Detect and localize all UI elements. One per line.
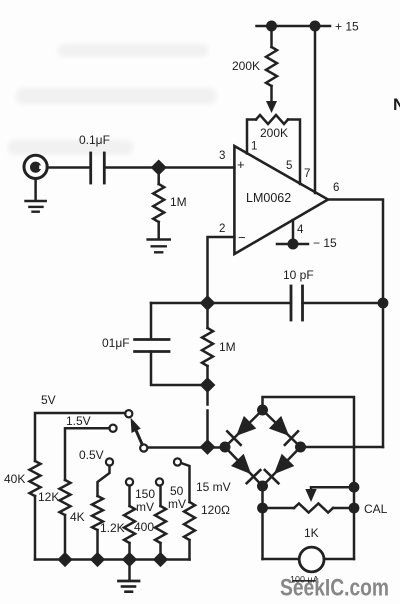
wiper arrow of 200K pot — [266, 101, 277, 113]
CAL wiper arrowhead — [305, 489, 316, 502]
svg-text:1K: 1K — [304, 526, 319, 540]
capacitor C2 10pF plates — [290, 286, 293, 320]
wire pot right lead — [333, 507, 354, 510]
node -15 junction — [288, 239, 299, 250]
svg-text:150: 150 — [135, 487, 155, 501]
input jack center contact — [30, 162, 41, 173]
node rail junction R4 — [122, 552, 137, 567]
wire 5V line — [35, 413, 125, 461]
node bridge right — [295, 442, 306, 453]
diode D3 bottom-left — [231, 454, 251, 475]
svg-text:12K: 12K — [38, 490, 59, 504]
ground rail stem — [128, 560, 131, 581]
svg-text:LM0062: LM0062 — [246, 191, 291, 205]
wire feedback row left segment — [151, 302, 291, 305]
svg-text:2: 2 — [219, 223, 225, 235]
node rail junction R2 — [57, 552, 72, 567]
svg-text:7: 7 — [304, 168, 310, 180]
resistor R2 12K — [60, 480, 71, 515]
switch contact 0.5V — [106, 458, 113, 465]
wire 150mV stub — [128, 486, 131, 506]
resistor 1M feedback — [206, 303, 209, 328]
switch contact 15mV — [174, 458, 181, 465]
svg-text:1M: 1M — [170, 195, 187, 209]
node input junction — [151, 159, 167, 175]
svg-text:− 15: − 15 — [313, 236, 337, 250]
wire 0.5V line — [98, 466, 110, 496]
switch arm arrowhead — [131, 418, 141, 433]
svg-text:6: 6 — [333, 182, 339, 194]
node bridge top — [257, 405, 268, 416]
ground jack stem — [34, 179, 37, 201]
input jack J1 outer ring — [24, 155, 47, 178]
node +15 left junction — [266, 21, 277, 32]
node bridge left — [220, 442, 231, 453]
resistor R3 4K — [92, 496, 103, 530]
resistor R1 40K — [30, 461, 41, 496]
svg-text:1M: 1M — [219, 340, 236, 354]
wire -15 bar — [277, 243, 308, 246]
node switch junction — [200, 439, 216, 455]
svg-text:10 pF: 10 pF — [283, 268, 314, 282]
faint scan ghost marks — [8, 44, 216, 155]
wire pin7 to +15 — [314, 26, 317, 193]
svg-text:4K: 4K — [70, 510, 85, 524]
wire pin2 left and down — [208, 237, 235, 303]
wire bridge right to output rail — [301, 446, 384, 449]
node feedback bottom junction — [200, 377, 216, 393]
svg-text:400: 400 — [134, 520, 154, 534]
svg-text:+: + — [237, 157, 245, 172]
svg-text:5: 5 — [286, 160, 292, 172]
switch S1 pole — [140, 444, 147, 451]
ground symbol under 1M — [148, 238, 170, 241]
wire meter row left — [263, 558, 300, 561]
node output junction — [378, 298, 389, 309]
potentiometer 200K body — [256, 115, 288, 124]
ground symbol bottom — [119, 580, 140, 583]
resistor R4 1.2K — [124, 506, 135, 543]
svg-text:SeekIC.com: SeekIC.com — [280, 575, 389, 602]
svg-text:01μF: 01μF — [102, 336, 130, 350]
node pot right junction — [349, 503, 360, 514]
resistor R5 400 — [155, 506, 166, 543]
svg-text:+ 15: + 15 — [335, 20, 359, 34]
diode D2 top-right — [269, 416, 289, 436]
diode D1 top-left — [236, 416, 256, 436]
meter M1 100uA — [299, 547, 324, 572]
wire feedback row right segment — [303, 302, 384, 305]
svg-text:3: 3 — [219, 150, 225, 162]
svg-text:4: 4 — [297, 224, 304, 236]
svg-text:−: − — [238, 230, 246, 245]
wire CAL wiper — [311, 487, 354, 490]
wire pin4 stub — [292, 220, 295, 244]
ground symbol under jack — [26, 200, 46, 203]
svg-text:200K: 200K — [232, 59, 260, 73]
wire pot right lead to pin5 — [288, 120, 300, 185]
node pot left junction — [257, 503, 268, 514]
potentiometer 1K CAL body — [294, 504, 333, 513]
wire meter row right — [324, 558, 354, 561]
svg-text:mV: mV — [168, 497, 186, 511]
capacitor C1 0.1uF plates — [89, 153, 92, 183]
svg-text:mV: mV — [136, 500, 154, 514]
svg-text:120Ω: 120Ω — [201, 503, 230, 517]
node rail junction R3 — [90, 552, 105, 567]
wire jack to cap — [47, 166, 91, 169]
wire bridge bottom down — [261, 486, 264, 559]
svg-text:0.5V: 0.5V — [79, 448, 104, 462]
wire switch pole to bridge left — [147, 446, 225, 449]
resistor R6 120ohm — [184, 502, 195, 540]
node rail junction R5 — [153, 552, 168, 567]
wire pin6 output to right rail — [328, 200, 383, 448]
svg-text:1.2K: 1.2K — [100, 521, 125, 535]
wire pot left lead to pin1 — [247, 120, 256, 154]
node wiper junction — [349, 482, 360, 493]
wire 1.5V line — [65, 428, 109, 480]
svg-text:50: 50 — [170, 484, 184, 498]
switch contact 5V — [125, 410, 132, 417]
node feedback top junction — [200, 295, 216, 311]
switch contact 1.5V — [109, 425, 116, 432]
wire 50mV stub — [159, 486, 162, 506]
switch arm — [135, 428, 142, 445]
svg-text:40K: 40K — [4, 472, 25, 486]
svg-text:15 mV: 15 mV — [196, 480, 231, 494]
svg-text:0.1μF: 0.1μF — [79, 133, 110, 147]
wire feedback column down with gap — [206, 385, 209, 405]
op-amp U1 LM0062 triangle — [234, 146, 328, 254]
node bridge bottom — [257, 481, 268, 492]
diode D4 bottom-right — [274, 454, 294, 475]
diode bridge wires — [225, 410, 301, 486]
wire cap to pin3 — [104, 166, 234, 169]
svg-text:CAL: CAL — [364, 502, 388, 516]
wire +15 rail — [257, 25, 331, 28]
capacitor C3 0.01uF branch — [150, 303, 153, 339]
wire bridge top to CAL column — [263, 397, 355, 559]
svg-text:1.5V: 1.5V — [66, 414, 91, 428]
svg-text:5V: 5V — [41, 393, 56, 407]
switch contact 50mV — [156, 478, 163, 485]
svg-text:N: N — [393, 95, 400, 114]
wire 15mV stub — [181, 463, 189, 502]
wire pot left lead — [263, 507, 295, 510]
switch contact 150mV — [126, 478, 133, 485]
node +15 right junction — [310, 21, 321, 32]
svg-text:1: 1 — [251, 141, 257, 153]
resistor 1M input shunt — [157, 168, 160, 185]
resistor 200K (vertical, to wiper) — [270, 26, 273, 47]
wire ground rail — [35, 558, 190, 561]
svg-text:200K: 200K — [260, 126, 288, 140]
